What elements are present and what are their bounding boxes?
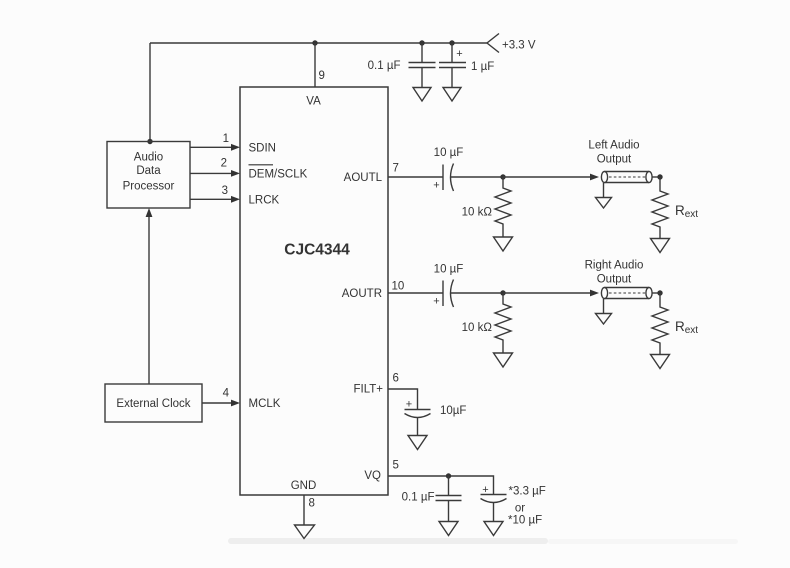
- chip U1 CJC4344 body: [240, 87, 388, 495]
- capacitor C 1uF (VA, polarized): [439, 63, 466, 68]
- node junction rail / pin 9: [312, 40, 317, 45]
- svg-text:9: 9: [319, 70, 325, 82]
- svg-text:DEM/SCLK: DEM/SCLK: [249, 168, 308, 180]
- svg-text:10 µF: 10 µF: [434, 264, 464, 276]
- svg-text:AOUTR: AOUTR: [342, 288, 382, 300]
- wire GND pin 8: [303, 495, 305, 525]
- wire C1 to ground: [421, 68, 423, 88]
- wire SDIN: [190, 146, 231, 148]
- svg-text:VQ: VQ: [364, 470, 381, 482]
- wire left jack tip to node L2: [652, 176, 660, 178]
- ground (left Rext): [651, 239, 670, 253]
- connector left audio jack: [601, 171, 652, 182]
- wire right jack sleeve to ground: [603, 299, 605, 313]
- svg-text:CJC4344: CJC4344: [284, 242, 350, 259]
- arrowhead MCLK pin 4: [231, 400, 240, 407]
- svg-text:Processor: Processor: [123, 181, 175, 193]
- wire External Clock to ADP: [148, 215, 150, 384]
- svg-text:10 µF: 10 µF: [434, 147, 464, 159]
- svg-text:5: 5: [393, 460, 399, 472]
- wire C2 stub: [451, 43, 453, 62]
- svg-text:FILT+: FILT+: [353, 384, 383, 396]
- node R2 junction: [657, 290, 662, 295]
- svg-text:*3.3 µF: *3.3 µF: [509, 486, 546, 498]
- wire VQ pin 5: [388, 476, 494, 495]
- resistor Rext (left): [652, 177, 668, 238]
- svg-text:Right Audio: Right Audio: [585, 260, 644, 272]
- capacitor C 0.1uF (VA): [409, 63, 436, 68]
- wire VQ C6 stub: [448, 476, 450, 496]
- External Clock box: [105, 384, 202, 422]
- svg-text:*10 µF: *10 µF: [508, 515, 542, 527]
- wire AOUTL pin 7 to C3: [388, 176, 443, 178]
- svg-text:2: 2: [221, 158, 227, 170]
- power +3.3V chevron: [487, 34, 499, 53]
- node junction rail / C1: [419, 40, 424, 45]
- capacitor C6 0.1uF (VQ): [436, 496, 462, 501]
- wire MCLK: [202, 402, 231, 404]
- arrowhead into right jack: [590, 290, 599, 297]
- svg-text:+: +: [456, 48, 462, 60]
- svg-text:8: 8: [309, 498, 315, 510]
- svg-text:1 µF: 1 µF: [471, 61, 494, 73]
- wire C3 to node L1: [451, 176, 503, 178]
- svg-text:0.1 µF: 0.1 µF: [402, 492, 435, 504]
- ground (left 10k): [494, 237, 513, 251]
- svg-text:+: +: [433, 296, 439, 308]
- svg-text:Left Audio: Left Audio: [588, 140, 639, 152]
- svg-text:3: 3: [222, 185, 228, 197]
- node L2 junction: [657, 174, 662, 179]
- wire C4 to node R1: [451, 292, 503, 294]
- arrowhead DEM/SCLK pin 2: [231, 170, 240, 177]
- wire C5 to ground: [417, 418, 419, 436]
- node L1 junction: [500, 174, 505, 179]
- resistor R 10k (right): [495, 293, 511, 353]
- svg-text:7: 7: [393, 163, 399, 175]
- Audio Data Processor box: [107, 142, 190, 209]
- svg-text:10 kΩ: 10 kΩ: [462, 207, 493, 219]
- capacitor C3 10uF series (AOUTL): [443, 164, 454, 192]
- ground (chip GND): [295, 525, 315, 539]
- ground (VA C2): [443, 88, 461, 102]
- ground (VQ C6): [439, 522, 458, 536]
- svg-text:Data: Data: [136, 165, 161, 177]
- ground (VA C1): [413, 88, 431, 102]
- svg-text:10µF: 10µF: [440, 405, 466, 417]
- wire top supply rail: [150, 42, 487, 44]
- svg-text:+3.3 V: +3.3 V: [502, 40, 536, 52]
- ground (right 10k): [494, 353, 513, 367]
- wire DEM/SCLK: [190, 172, 231, 174]
- resistor Rext (right): [652, 293, 668, 354]
- wire FILT+ pin 6: [388, 389, 418, 410]
- wire right jack tip to node R2: [652, 292, 660, 294]
- arrowhead SDIN pin 1: [231, 144, 240, 151]
- wire AOUTR pin 10 to C4: [388, 292, 443, 294]
- ground (right jack): [596, 314, 612, 325]
- wire left vertical from rail to Audio Data Processor: [149, 43, 151, 142]
- capacitor C7 3.3uF/10uF (VQ, polarized): [481, 495, 507, 503]
- svg-text:Output: Output: [597, 274, 632, 286]
- wire C6 to ground: [448, 501, 450, 522]
- svg-text:SDIN: SDIN: [249, 142, 276, 154]
- wire left jack sleeve to ground: [603, 183, 605, 197]
- svg-text:or: or: [515, 503, 525, 515]
- capacitor C5 10uF (FILT+, polarized): [405, 410, 431, 418]
- arrowhead LRCK pin 3: [231, 196, 240, 203]
- wire C2 to ground: [451, 68, 453, 88]
- wire C7 to ground: [493, 503, 495, 522]
- svg-text:10 kΩ: 10 kΩ: [462, 322, 493, 334]
- svg-text:External Clock: External Clock: [116, 398, 190, 410]
- svg-text:+: +: [406, 399, 412, 411]
- svg-text:+: +: [482, 484, 488, 496]
- wire LRCK: [190, 198, 231, 200]
- connector right audio jack: [601, 287, 652, 298]
- svg-text:AOUTL: AOUTL: [344, 172, 383, 184]
- svg-text:Output: Output: [597, 154, 632, 166]
- node junction on ADP top edge: [147, 139, 152, 144]
- svg-text:10: 10: [392, 281, 405, 293]
- svg-text:Audio: Audio: [134, 152, 163, 164]
- svg-text:+: +: [433, 180, 439, 192]
- arrowhead into ADP bottom: [146, 208, 153, 217]
- svg-text:MCLK: MCLK: [249, 398, 281, 410]
- ground (VQ C7): [484, 522, 503, 536]
- node junction rail / C2: [449, 40, 454, 45]
- capacitor C4 10uF series (AOUTR): [443, 280, 454, 308]
- svg-text:GND: GND: [291, 480, 317, 492]
- ground (left jack): [596, 198, 612, 209]
- svg-text:1: 1: [223, 133, 229, 145]
- wire C1 stub: [421, 43, 423, 62]
- ground (FILT+): [408, 436, 427, 450]
- wire node R1 to right jack arrow: [503, 292, 591, 294]
- svg-text:0.1 µF: 0.1 µF: [368, 60, 401, 72]
- resistor R 10k (left): [495, 177, 511, 237]
- arrowhead into left jack: [590, 174, 599, 181]
- svg-text:4: 4: [223, 388, 230, 400]
- wire pin 9 VA drop: [314, 43, 316, 87]
- ground (right Rext): [651, 355, 670, 369]
- svg-text:VA: VA: [306, 96, 321, 108]
- svg-text:6: 6: [393, 373, 399, 385]
- svg-text:LRCK: LRCK: [249, 194, 280, 206]
- node R1 junction: [500, 290, 505, 295]
- wire node L1 to left jack arrow: [503, 176, 591, 178]
- node VQ junction: [446, 473, 451, 478]
